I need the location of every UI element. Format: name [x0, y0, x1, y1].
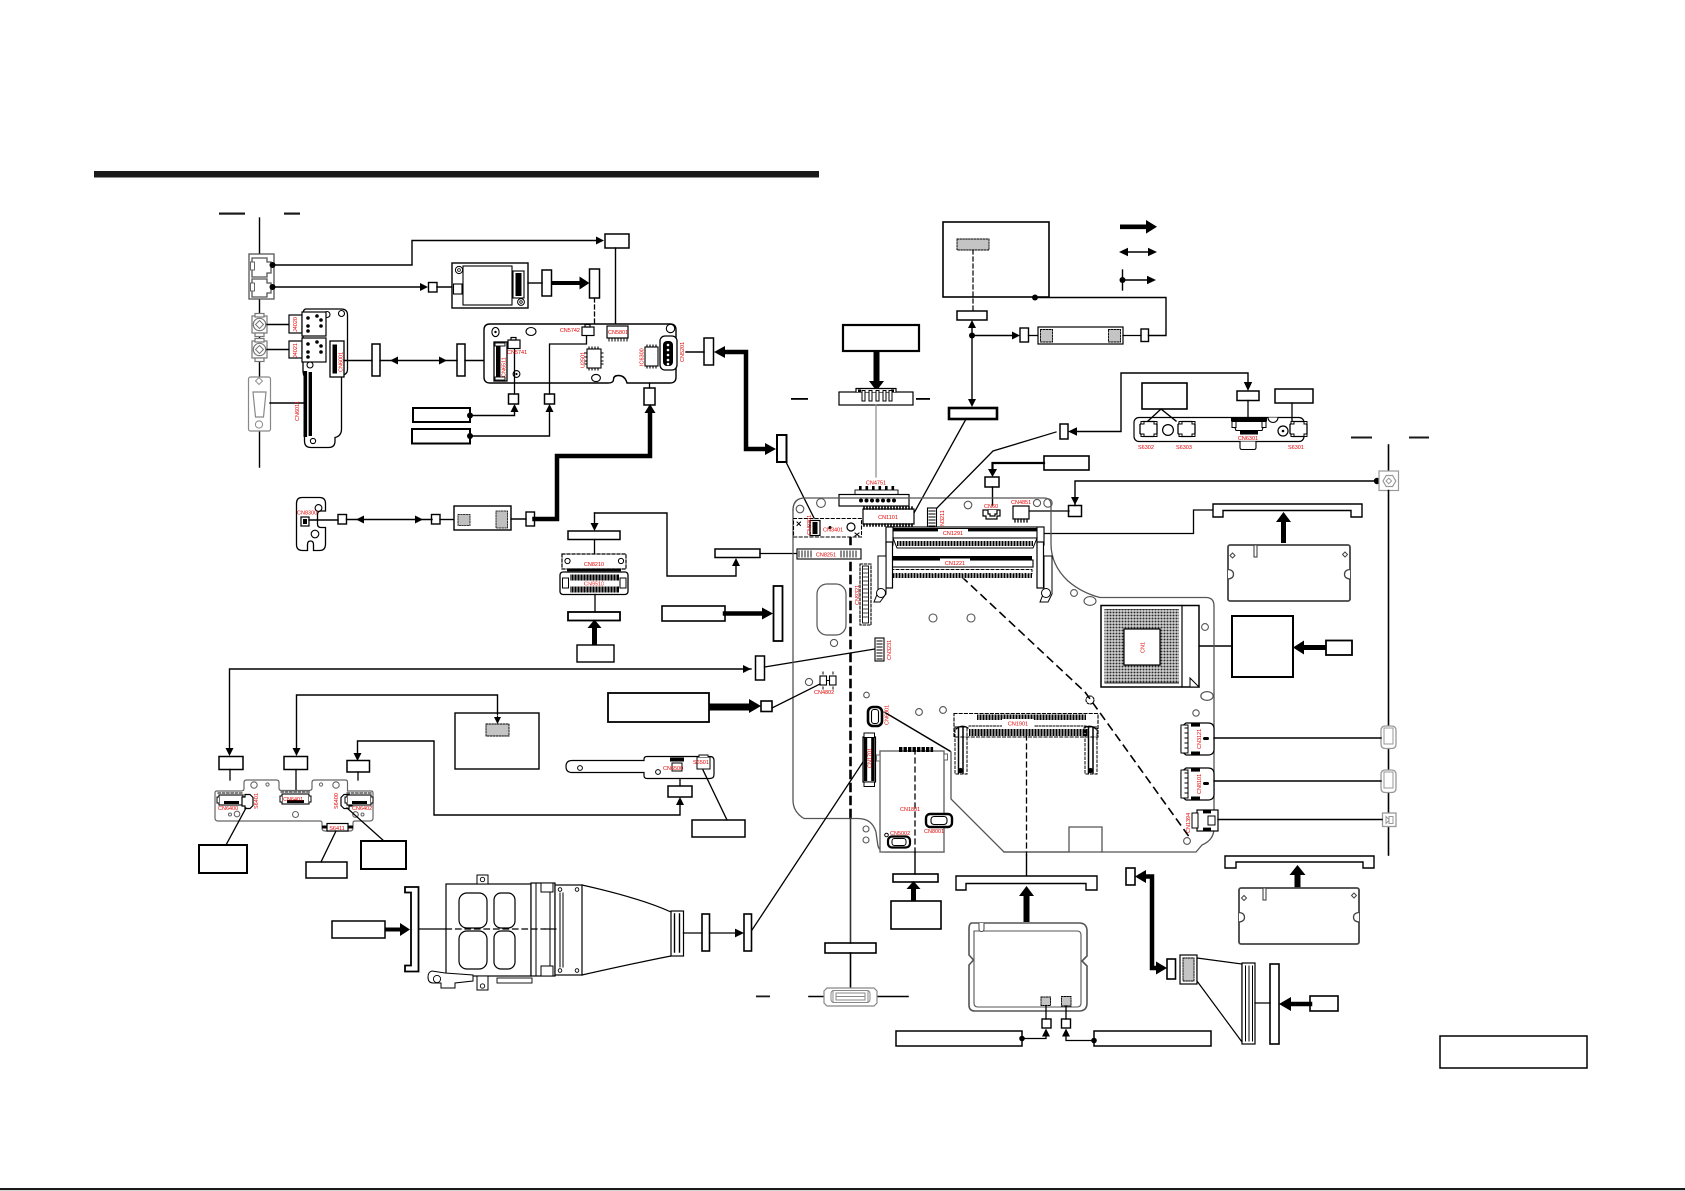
- box label right: [361, 841, 406, 869]
- hole: [319, 783, 322, 786]
- box button label 2: [284, 757, 308, 770]
- connector CN8210: [562, 554, 626, 571]
- tick: [809, 996, 824, 998]
- box HDD label: [891, 901, 941, 929]
- arrowhead up: [1062, 1029, 1070, 1037]
- box small: [338, 515, 347, 525]
- wire rail lower: [1388, 749, 1390, 770]
- connector on CN8300: [301, 517, 309, 526]
- wire diag to CN3401: [786, 462, 815, 520]
- svg-text:CN6401: CN6401: [283, 797, 303, 803]
- pad: [496, 511, 508, 528]
- cutout rounded left: [817, 584, 846, 635]
- svg-text:S6401: S6401: [254, 793, 260, 809]
- wire center line solid: [419, 928, 446, 930]
- connector CN9321 vertical: [860, 564, 871, 625]
- bar label right: [1094, 1031, 1211, 1046]
- wire: [992, 487, 994, 505]
- wire: [1247, 401, 1249, 419]
- svg-text:CN1221: CN1221: [945, 561, 965, 567]
- box small: [1069, 506, 1082, 517]
- wire CN1291 to rail bracket: [1044, 510, 1213, 534]
- legend dot: [1120, 277, 1126, 283]
- hole: [1201, 692, 1213, 701]
- svg-text:CN6011: CN6011: [295, 401, 301, 421]
- hole: [864, 692, 870, 698]
- teeth CN1901 bottom: [971, 729, 1088, 736]
- hole: [863, 826, 869, 832]
- port 1394 socket: [1383, 813, 1397, 827]
- svg-text:S6303: S6303: [1176, 445, 1192, 451]
- arrowhead down: [988, 469, 997, 477]
- bus thick arrow into CPU box: [1293, 641, 1326, 655]
- wire rail lower2: [1388, 793, 1390, 813]
- jack receptacle J4021: [289, 338, 326, 362]
- wire touchpad net: [297, 695, 498, 751]
- hole: [307, 362, 313, 368]
- tick mark left: [219, 213, 245, 215]
- box small top: [605, 234, 629, 248]
- connector CN6001 oval: [868, 707, 882, 726]
- arrowhead left: [714, 346, 725, 358]
- wire: [437, 286, 452, 288]
- hole: [1033, 499, 1040, 506]
- hole: [796, 505, 804, 513]
- wire stub: [229, 770, 231, 781]
- wire: [1065, 1006, 1067, 1019]
- thick arrow card up: [1019, 886, 1034, 922]
- svg-text:CN60: CN60: [984, 504, 998, 510]
- box tall: [542, 270, 552, 296]
- connector CN6401: [280, 792, 311, 804]
- connector CN5201: [660, 336, 677, 370]
- svg-text:S6411: S6411: [329, 826, 345, 832]
- wire CN5741 drop: [514, 349, 516, 395]
- hole: [229, 813, 232, 816]
- box PCcard label: [332, 921, 385, 938]
- connector CN1701: [863, 733, 876, 787]
- hole: [251, 782, 257, 788]
- board modem daughter card: [454, 506, 511, 530]
- hole: [964, 501, 972, 509]
- hole: [817, 499, 826, 508]
- connector CN6301: [1231, 418, 1267, 435]
- pad: [1041, 997, 1051, 1006]
- svg-text:CN6400: CN6400: [218, 806, 238, 812]
- connector CN60: [983, 510, 1000, 519]
- hole: [916, 709, 923, 716]
- legend double arrow: [1124, 251, 1152, 253]
- box LCD label: [949, 408, 997, 419]
- node at DC jack: [1374, 478, 1380, 484]
- wire IC6300 to box: [649, 366, 651, 388]
- board sound board: [484, 324, 676, 383]
- wire box to CN6511: [465, 360, 494, 362]
- box small: [509, 394, 519, 404]
- wire diag: [347, 808, 384, 841]
- bus thick modem to sound board net: [535, 412, 651, 519]
- wire CN9510 to box: [594, 595, 596, 613]
- wire DC in net: [1075, 481, 1377, 506]
- bracket rail top right: [1213, 504, 1362, 517]
- arrowhead up: [511, 404, 519, 412]
- wire bar2 to box: [1066, 1036, 1094, 1041]
- hole: [1084, 597, 1096, 606]
- arrowhead up: [546, 404, 554, 412]
- box small: [1062, 1019, 1071, 1028]
- connector CN1221 memory slot: [882, 556, 1033, 578]
- connector CN8101: [1181, 768, 1214, 800]
- connector CN3231: [875, 638, 884, 661]
- bracket rail RAM2: [1225, 856, 1374, 868]
- hole: [830, 639, 837, 646]
- bottom rule: [0, 1188, 1685, 1190]
- connector CN1901 big slot: [954, 714, 1098, 738]
- hole: [515, 373, 517, 375]
- svg-text:CN1801: CN1801: [900, 807, 920, 813]
- board edge bump bottom: [1004, 827, 1102, 852]
- svg-text:CN6511: CN6511: [502, 357, 508, 377]
- connector keyboard FPC upper: [839, 389, 913, 406]
- legend bar dot arrow: [1123, 270, 1151, 290]
- legend arrowheads: [1119, 248, 1157, 256]
- svg-text:CN3401: CN3401: [823, 528, 843, 534]
- arrowhead up: [676, 797, 684, 805]
- audio jack lower: [252, 339, 267, 362]
- wire rail lower3: [1388, 827, 1390, 855]
- tick: [756, 996, 770, 998]
- wire diag S6501 to label box: [703, 770, 727, 820]
- box label: [692, 820, 745, 837]
- hole: [666, 324, 674, 332]
- box tall: [457, 344, 465, 376]
- wire to CN5742 box: [470, 410, 550, 436]
- svg-text:CN9301: CN9301: [807, 515, 813, 535]
- wire diag to CN3231: [765, 649, 876, 667]
- box small: [957, 311, 987, 320]
- board switch board: [1134, 418, 1304, 442]
- tick right: [877, 996, 908, 998]
- arrowhead down: [293, 748, 301, 756]
- box tall: [704, 338, 714, 365]
- cable IDE flex: [1180, 955, 1255, 1044]
- box label touchpad chain: [608, 693, 709, 722]
- arrowhead right: [765, 443, 776, 455]
- arrowhead right: [439, 357, 447, 365]
- bus thick to board edge box: [725, 611, 762, 616]
- dashed center HDD: [914, 749, 916, 852]
- socket center plate: [1124, 629, 1160, 665]
- box touch pad: [455, 713, 539, 769]
- wire LAN to top box: [273, 241, 597, 266]
- dashed drop CN1901: [1026, 735, 1028, 855]
- svg-text:CN1394: CN1394: [1186, 813, 1192, 833]
- hole: [1193, 710, 1199, 716]
- svg-text:CN5742: CN5742: [560, 328, 580, 334]
- wire double arrow: [380, 360, 457, 362]
- switch S6501: [697, 755, 710, 769]
- hole: [592, 374, 601, 381]
- socket CPU CN1: [1101, 606, 1199, 688]
- arrowhead left into box: [1068, 427, 1077, 435]
- tick: [1409, 437, 1429, 439]
- svg-text:CN4851: CN4851: [1011, 500, 1031, 506]
- tab: [944, 754, 948, 760]
- svg-text:CN6301: CN6301: [1238, 436, 1258, 442]
- arrowhead down: [591, 523, 599, 531]
- connector CN6500: [670, 758, 684, 772]
- label CN8251: [812, 551, 840, 559]
- button S6301: [1290, 422, 1307, 437]
- hole: [324, 312, 330, 318]
- svg-text:CN1901: CN1901: [1008, 722, 1028, 728]
- connector pin: [303, 519, 307, 524]
- wire: [1029, 335, 1039, 337]
- box audio label bar1: [413, 408, 470, 422]
- wire DC jack stub: [1388, 445, 1390, 471]
- arrowhead down: [226, 748, 234, 756]
- node: [1019, 1036, 1025, 1042]
- arrowhead right: [1156, 962, 1167, 975]
- svg-text:CN4802: CN4802: [814, 690, 834, 696]
- wire stub: [357, 772, 359, 780]
- node jack lower: [270, 284, 276, 290]
- hole: [234, 811, 240, 817]
- box small: [1020, 328, 1029, 342]
- connector CN8251: [797, 549, 861, 559]
- box small: [1141, 329, 1149, 342]
- thick arrow down to keyboard connector: [869, 351, 884, 391]
- hole: [333, 782, 339, 788]
- box label fdd: [662, 606, 725, 621]
- board audio/IO sub-board: [303, 309, 348, 448]
- wire module to box: [528, 282, 542, 284]
- box audio label bar2: [412, 429, 470, 444]
- box wide: [568, 612, 620, 621]
- latch arm left CN1901: [955, 726, 968, 774]
- svg-text:CN5002: CN5002: [890, 831, 910, 837]
- connector CN1101: [863, 507, 914, 526]
- svg-text:CN6402: CN6402: [352, 806, 372, 812]
- svg-text:S6302: S6302: [1138, 445, 1154, 451]
- wire: [1045, 1006, 1047, 1019]
- svg-text:CN8101: CN8101: [1197, 774, 1203, 794]
- pad LCD connector: [957, 239, 989, 250]
- hole: [353, 812, 359, 818]
- box label: [577, 645, 614, 662]
- button S6400: [341, 795, 352, 809]
- wire switch net: [1073, 373, 1248, 432]
- box small: [1060, 424, 1068, 439]
- label CN1221: [940, 559, 970, 568]
- dashed partition vertical: [849, 537, 852, 818]
- bus thick arrow left: [1290, 1002, 1310, 1007]
- part CN5741: [508, 338, 520, 349]
- button S6303: [1178, 422, 1195, 437]
- hole: [526, 328, 536, 336]
- legend thick arrow: [1120, 220, 1157, 234]
- connector LCD cable end: [824, 988, 877, 1006]
- teeth CN1901 top: [979, 715, 1084, 721]
- legend head: [1147, 276, 1156, 284]
- svg-text:CN3231: CN3231: [887, 640, 893, 660]
- svg-text:CN1: CN1: [1141, 642, 1147, 653]
- wire fan to buttons: [1148, 409, 1176, 421]
- wire: [440, 519, 454, 521]
- wire box to CN5801: [615, 248, 617, 326]
- arrow onto pad: [497, 713, 499, 719]
- box small: [432, 515, 441, 525]
- wire dsub to board: [270, 402, 303, 404]
- svg-text:CN8001: CN8001: [924, 829, 944, 835]
- wire down with arrow: [971, 336, 973, 400]
- connector CN4751 body: [839, 490, 909, 506]
- connector CN9510: [560, 572, 628, 595]
- wire: [1255, 1002, 1270, 1004]
- wire: [511, 518, 526, 520]
- part LCD cable: [1038, 327, 1123, 344]
- stack arrow into box: [595, 513, 737, 576]
- wire diag: [321, 831, 336, 862]
- thick arrow to box: [552, 277, 590, 290]
- wire CN5201 chain: [686, 351, 704, 353]
- latch right CN1221: [1037, 542, 1052, 602]
- connector CN3121: [1181, 723, 1214, 755]
- box LCD panel: [943, 222, 1049, 297]
- teeth CN1221: [889, 574, 1030, 579]
- wire right rail: [1388, 491, 1390, 727]
- wire center solid2: [545, 928, 556, 930]
- box above CN6301: [1237, 391, 1259, 401]
- board mainboard outline left: [793, 510, 944, 852]
- box label S6301: [1275, 389, 1313, 403]
- arrowhead: [596, 237, 604, 245]
- thick arrow RAM1 up: [1276, 512, 1291, 543]
- arrowhead up: [968, 320, 976, 328]
- wire vertical solid continuation: [850, 818, 852, 943]
- box tall: [777, 435, 787, 462]
- port USB capsule 2: [1381, 770, 1396, 793]
- svg-text:S6301: S6301: [1288, 445, 1304, 451]
- wire diag to CN4802: [772, 684, 820, 708]
- wire stub: [295, 770, 297, 791]
- connector CN1291 memory slot: [886, 527, 1044, 548]
- box small: [985, 477, 999, 487]
- tab: [877, 755, 881, 761]
- connector CN3401 body: [797, 521, 859, 537]
- wire long horizontal to button board: [230, 669, 752, 751]
- wire: [594, 540, 596, 555]
- wire CN4851 to box: [1028, 510, 1069, 512]
- connector CN3211: [928, 508, 937, 531]
- arrowhead up: [732, 558, 740, 566]
- bus thick IDE: [1141, 877, 1160, 969]
- wire: [1026, 855, 1028, 876]
- box label left: [199, 845, 247, 873]
- latch left CN1221: [874, 542, 893, 602]
- board HDD sub-board: [880, 751, 944, 852]
- connector CN1394: [1192, 810, 1218, 831]
- wire CN8300 to box: [309, 519, 338, 521]
- arrowhead right: [762, 608, 773, 620]
- svg-text:CN9321: CN9321: [855, 585, 861, 605]
- node: [1091, 1038, 1097, 1044]
- svg-text:U2501: U2501: [581, 352, 587, 368]
- module wireless LAN card: [452, 263, 528, 308]
- funnel PC card cable: [582, 885, 671, 975]
- connector CN6402: [345, 793, 373, 805]
- wire up with arrow: [971, 327, 973, 336]
- wire to CN8251: [760, 553, 800, 555]
- box small: [761, 701, 772, 712]
- arrowhead down: [1244, 382, 1252, 391]
- svg-text:S6400: S6400: [334, 793, 340, 809]
- hole: [1163, 425, 1174, 436]
- hole: [1202, 624, 1209, 631]
- ic U2501: [585, 347, 603, 370]
- svg-text:CN6500: CN6500: [663, 766, 683, 772]
- wire diag CN6001 to HDD bay corner: [886, 713, 950, 751]
- tick mark right: [284, 213, 300, 215]
- wire return to LCD: [1035, 298, 1166, 336]
- svg-text:CN4751: CN4751: [866, 481, 886, 487]
- box IDE small: [1126, 868, 1135, 885]
- box CPU label: [1232, 616, 1293, 677]
- ic IC6300: [645, 345, 658, 368]
- connector CN5801: [607, 326, 628, 341]
- wire to CN60: [993, 463, 1045, 471]
- teeth HDD top: [899, 747, 933, 752]
- bracket PCcard left: [405, 887, 419, 972]
- wire connector to box: [684, 932, 703, 934]
- arrowhead: [494, 717, 501, 724]
- wire arrow: [710, 932, 737, 934]
- box at edge: [756, 656, 765, 680]
- title bar: [94, 171, 819, 178]
- svg-text:CN3121: CN3121: [1197, 729, 1203, 749]
- wire socket to box: [1199, 645, 1232, 647]
- wire audio board to box: [344, 360, 372, 362]
- svg-text:CN8251: CN8251: [816, 553, 836, 559]
- part CN5742: [582, 325, 594, 336]
- bracket board CN8300: [297, 498, 326, 551]
- svg-text:CN5741: CN5741: [507, 350, 527, 356]
- thick arrow up: [588, 620, 602, 646]
- wire: [1291, 403, 1293, 421]
- wire CN3211 diag to box: [937, 432, 1056, 508]
- wire: [1123, 335, 1141, 337]
- wire diag: [226, 808, 246, 845]
- hole: [1071, 590, 1078, 597]
- socket grid mesh h: [1104, 611, 1180, 680]
- latch PCcard bottom: [428, 971, 532, 990]
- wire CN8101 to port: [1214, 780, 1381, 782]
- jack receptacle J4020: [289, 312, 326, 336]
- button S6302: [1140, 422, 1157, 437]
- socket corner mark: [1190, 678, 1199, 687]
- svg-text:CN5201: CN5201: [680, 342, 686, 362]
- node jack upper: [270, 262, 276, 268]
- hole: [967, 614, 975, 622]
- hole: [1184, 838, 1191, 845]
- connector CN3401 dashed box: [794, 519, 862, 538]
- connector CN6001 audio board: [330, 341, 344, 377]
- box small: [429, 283, 438, 293]
- thick arrow up: [907, 881, 921, 901]
- arrowhead: [735, 929, 744, 938]
- wire keyboard cable gray: [875, 405, 877, 477]
- bracket rail mini-PCI: [956, 876, 1097, 890]
